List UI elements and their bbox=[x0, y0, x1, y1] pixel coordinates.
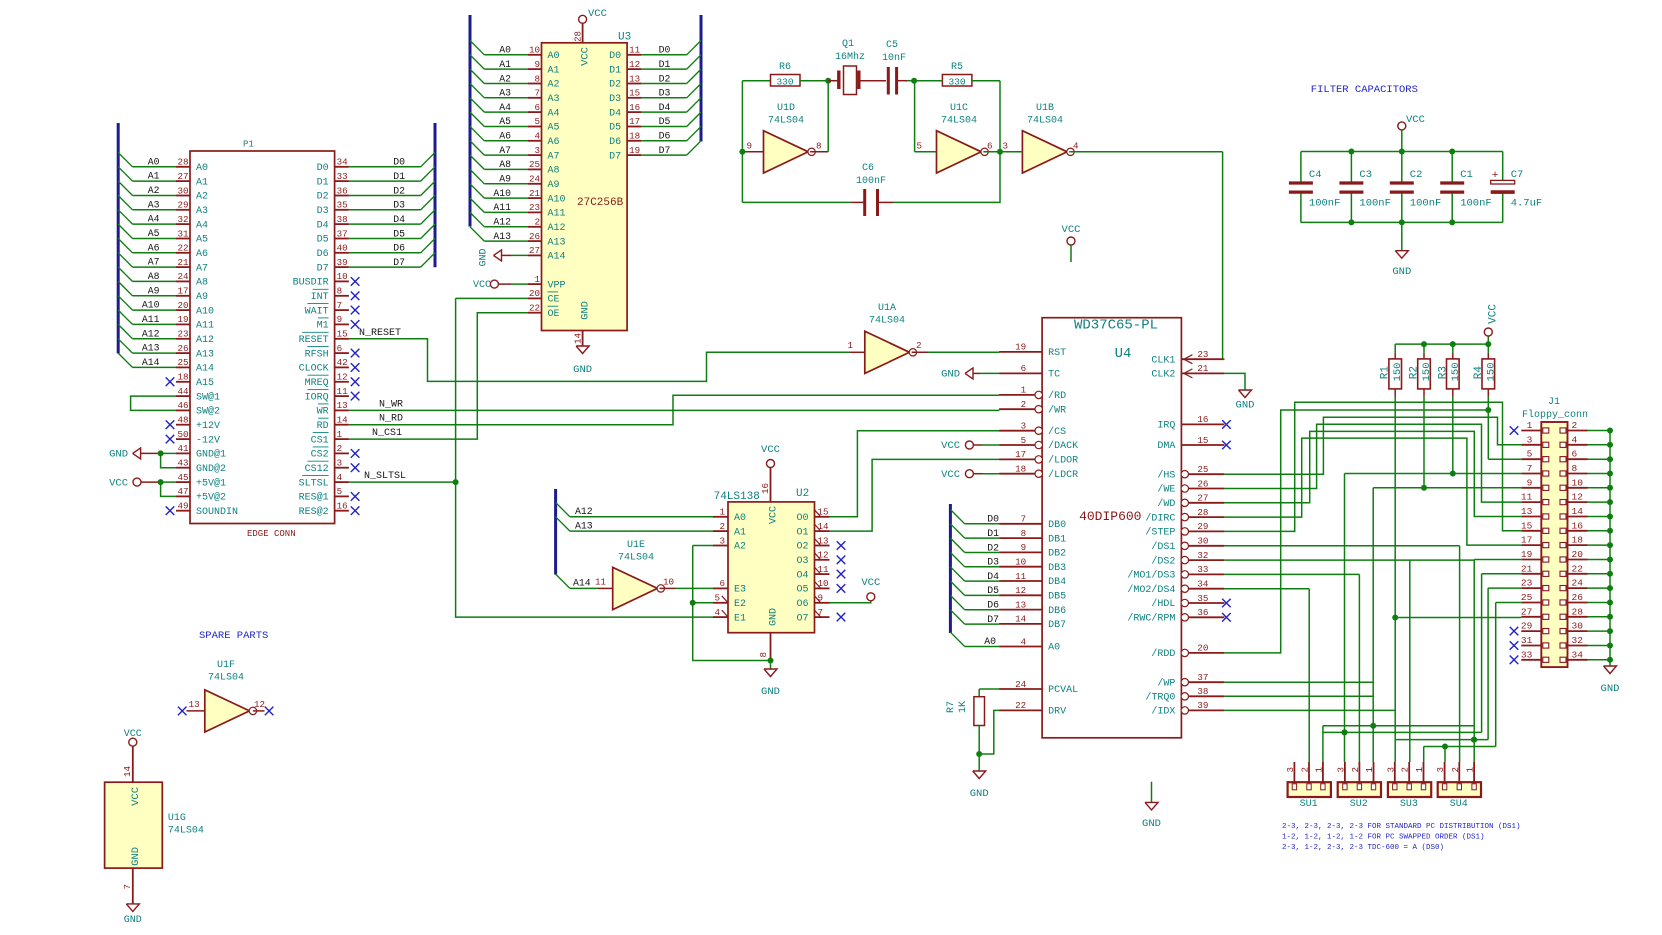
svg-text:2-3, 2-3, 2-3, 2-3 FOR STANDAR: 2-3, 2-3, 2-3, 2-3 FOR STANDARD PC DISTR… bbox=[1282, 823, 1521, 831]
svg-text:/WE: /WE bbox=[1157, 484, 1175, 496]
svg-text:A9: A9 bbox=[499, 174, 511, 185]
svg-text:DB6: DB6 bbox=[1048, 606, 1066, 617]
svg-text:GND: GND bbox=[573, 364, 592, 376]
svg-text:RES@1: RES@1 bbox=[299, 492, 329, 504]
svg-text:VCC: VCC bbox=[580, 47, 592, 66]
svg-text:/MO1/DS3: /MO1/DS3 bbox=[1127, 570, 1175, 582]
svg-text:74LS04: 74LS04 bbox=[168, 826, 204, 837]
svg-text:1: 1 bbox=[1313, 767, 1324, 773]
svg-text:25: 25 bbox=[1197, 464, 1208, 475]
svg-text:D0: D0 bbox=[987, 514, 999, 525]
svg-text:GND: GND bbox=[1601, 683, 1620, 695]
svg-text:44: 44 bbox=[177, 386, 189, 397]
svg-text:18: 18 bbox=[629, 131, 640, 142]
svg-text:150: 150 bbox=[1392, 363, 1404, 382]
svg-text:15: 15 bbox=[337, 329, 348, 340]
svg-text:DB2: DB2 bbox=[1048, 549, 1066, 560]
svg-text:3: 3 bbox=[1435, 767, 1446, 773]
svg-text:MREQ: MREQ bbox=[305, 378, 329, 389]
svg-text:15: 15 bbox=[1197, 435, 1208, 446]
svg-text:7: 7 bbox=[534, 88, 540, 99]
svg-text:21: 21 bbox=[1197, 363, 1209, 374]
svg-text:O5: O5 bbox=[796, 585, 808, 596]
svg-text:DB1: DB1 bbox=[1048, 534, 1066, 545]
svg-text:34: 34 bbox=[1572, 649, 1584, 660]
svg-text:12: 12 bbox=[1015, 585, 1026, 596]
svg-text:D4: D4 bbox=[393, 214, 405, 225]
svg-text:GND: GND bbox=[941, 369, 960, 381]
svg-text:2: 2 bbox=[916, 340, 922, 351]
svg-text:D5: D5 bbox=[987, 585, 999, 596]
svg-text:OE: OE bbox=[548, 309, 560, 320]
svg-text:A2: A2 bbox=[548, 80, 560, 91]
svg-text:17: 17 bbox=[1521, 535, 1532, 546]
svg-text:RES@2: RES@2 bbox=[299, 506, 329, 518]
svg-text:D4: D4 bbox=[609, 108, 621, 119]
svg-text:2: 2 bbox=[1350, 767, 1361, 773]
svg-text:3: 3 bbox=[1285, 767, 1296, 773]
svg-text:VPP: VPP bbox=[548, 280, 566, 291]
svg-text:SU3: SU3 bbox=[1400, 799, 1418, 810]
svg-text:15: 15 bbox=[629, 88, 640, 99]
svg-text:6: 6 bbox=[1021, 363, 1027, 374]
svg-text:23: 23 bbox=[1521, 578, 1533, 589]
svg-text:A2: A2 bbox=[148, 185, 160, 196]
svg-text:13: 13 bbox=[629, 73, 640, 84]
svg-text:A1: A1 bbox=[196, 177, 208, 188]
svg-text:3: 3 bbox=[1021, 421, 1027, 432]
svg-text:37: 37 bbox=[337, 228, 348, 239]
svg-text:A14: A14 bbox=[142, 357, 160, 368]
svg-text:GND: GND bbox=[761, 686, 780, 698]
svg-text:1: 1 bbox=[1364, 767, 1375, 773]
svg-text:A11: A11 bbox=[493, 202, 511, 213]
svg-text:17: 17 bbox=[177, 286, 188, 297]
svg-text:DB0: DB0 bbox=[1048, 520, 1066, 531]
svg-text:40: 40 bbox=[337, 243, 348, 254]
svg-text:74LS04: 74LS04 bbox=[208, 673, 244, 684]
svg-text:22: 22 bbox=[529, 303, 540, 314]
svg-text:D2: D2 bbox=[987, 542, 999, 553]
svg-text:48: 48 bbox=[177, 415, 188, 426]
svg-text:D0: D0 bbox=[393, 157, 405, 168]
svg-text:14: 14 bbox=[122, 766, 133, 778]
svg-text:D2: D2 bbox=[609, 80, 621, 91]
svg-text:D3: D3 bbox=[987, 557, 999, 568]
svg-text:VCC: VCC bbox=[130, 787, 142, 806]
svg-text:1: 1 bbox=[1527, 420, 1533, 431]
svg-text:RD: RD bbox=[317, 421, 329, 432]
svg-text:4: 4 bbox=[1021, 636, 1027, 647]
svg-text:A4: A4 bbox=[499, 102, 511, 113]
svg-text:A0: A0 bbox=[734, 513, 746, 524]
svg-text:A1: A1 bbox=[548, 65, 560, 76]
svg-text:TC: TC bbox=[1048, 370, 1060, 381]
svg-text:2-3, 1-2, 2-3, 2-3 TDC-600 = A: 2-3, 1-2, 2-3, 2-3 TDC-600 = A (DS0) bbox=[1282, 844, 1444, 852]
svg-text:330: 330 bbox=[948, 77, 965, 88]
svg-text:1: 1 bbox=[847, 340, 853, 351]
svg-text:A6: A6 bbox=[196, 249, 208, 260]
svg-text:DB4: DB4 bbox=[1048, 577, 1066, 588]
svg-text:4: 4 bbox=[1572, 434, 1578, 445]
svg-text:A7: A7 bbox=[548, 151, 560, 162]
svg-text:41: 41 bbox=[177, 443, 189, 454]
svg-text:36: 36 bbox=[1197, 607, 1208, 618]
svg-text:R5: R5 bbox=[951, 62, 963, 73]
svg-text:8: 8 bbox=[337, 286, 343, 297]
svg-text:N_RD: N_RD bbox=[379, 414, 403, 425]
svg-text:10: 10 bbox=[337, 271, 348, 282]
svg-text:6: 6 bbox=[1572, 449, 1578, 460]
svg-text:A12: A12 bbox=[142, 328, 160, 339]
svg-text:9: 9 bbox=[1021, 542, 1027, 553]
svg-text:74LS04: 74LS04 bbox=[941, 116, 977, 127]
svg-text:74LS04: 74LS04 bbox=[869, 316, 905, 327]
svg-text:16: 16 bbox=[1572, 520, 1584, 531]
svg-text:7: 7 bbox=[337, 300, 343, 311]
svg-text:D5: D5 bbox=[609, 123, 621, 134]
svg-text:VCC: VCC bbox=[588, 8, 607, 20]
svg-text:40DIP600: 40DIP600 bbox=[1079, 509, 1141, 524]
svg-text:CS12: CS12 bbox=[305, 464, 329, 475]
svg-text:D7: D7 bbox=[659, 145, 671, 156]
svg-text:D6: D6 bbox=[393, 243, 405, 254]
svg-text:33: 33 bbox=[1197, 564, 1208, 575]
svg-text:VCC: VCC bbox=[1406, 114, 1425, 126]
svg-text:/IDX: /IDX bbox=[1151, 706, 1175, 718]
svg-text:A13: A13 bbox=[575, 520, 593, 531]
svg-text:28: 28 bbox=[573, 31, 584, 42]
svg-text:9: 9 bbox=[337, 314, 343, 325]
svg-text:32: 32 bbox=[1197, 550, 1208, 561]
svg-text:CE: CE bbox=[548, 295, 560, 306]
svg-text:20: 20 bbox=[1572, 549, 1584, 560]
svg-text:24: 24 bbox=[177, 271, 189, 282]
svg-text:1: 1 bbox=[534, 274, 540, 285]
svg-text:CS1: CS1 bbox=[311, 435, 329, 446]
svg-text:CLK2: CLK2 bbox=[1151, 370, 1175, 381]
svg-text:29: 29 bbox=[177, 200, 188, 211]
svg-text:E1: E1 bbox=[734, 613, 746, 624]
svg-text:A3: A3 bbox=[499, 88, 511, 99]
svg-text:SU2: SU2 bbox=[1350, 799, 1368, 810]
svg-text:A2: A2 bbox=[499, 73, 511, 84]
svg-text:E3: E3 bbox=[734, 585, 746, 596]
svg-text:21: 21 bbox=[1521, 563, 1533, 574]
svg-text:39: 39 bbox=[1197, 700, 1208, 711]
svg-text:A8: A8 bbox=[148, 271, 160, 282]
svg-text:2: 2 bbox=[719, 521, 725, 532]
svg-text:D2: D2 bbox=[393, 185, 405, 196]
svg-text:8: 8 bbox=[1021, 528, 1027, 539]
svg-text:D7: D7 bbox=[317, 263, 329, 274]
svg-text:A13: A13 bbox=[142, 343, 160, 354]
svg-text:43: 43 bbox=[177, 458, 188, 469]
svg-text:/DIRC: /DIRC bbox=[1145, 512, 1175, 524]
svg-text:D5: D5 bbox=[659, 116, 671, 127]
svg-text:21: 21 bbox=[177, 257, 189, 268]
svg-text:26: 26 bbox=[529, 231, 540, 242]
svg-text:-12V: -12V bbox=[196, 435, 220, 446]
svg-text:J1: J1 bbox=[1548, 397, 1560, 408]
svg-text:3: 3 bbox=[1385, 767, 1396, 773]
svg-text:D1: D1 bbox=[659, 59, 671, 70]
svg-text:A0: A0 bbox=[1048, 643, 1060, 654]
svg-text:A5: A5 bbox=[548, 123, 560, 134]
svg-text:A12: A12 bbox=[548, 223, 566, 234]
svg-text:A7: A7 bbox=[148, 257, 160, 268]
svg-text:D3: D3 bbox=[609, 94, 621, 105]
svg-text:R6: R6 bbox=[779, 62, 791, 73]
svg-text:18: 18 bbox=[177, 372, 188, 383]
svg-text:2: 2 bbox=[1300, 767, 1311, 773]
svg-text:WAIT: WAIT bbox=[305, 306, 329, 317]
svg-text:13: 13 bbox=[337, 400, 348, 411]
svg-text:1: 1 bbox=[337, 429, 343, 440]
svg-text:3: 3 bbox=[534, 145, 540, 156]
svg-text:10: 10 bbox=[529, 45, 540, 56]
svg-text:EDGE CONN: EDGE CONN bbox=[247, 529, 296, 539]
svg-text:2: 2 bbox=[1021, 399, 1027, 410]
svg-text:A3: A3 bbox=[548, 94, 560, 105]
svg-text:4: 4 bbox=[1073, 141, 1079, 152]
svg-text:GND: GND bbox=[1236, 400, 1255, 412]
svg-text:SU1: SU1 bbox=[1300, 799, 1318, 810]
svg-text:11: 11 bbox=[595, 576, 607, 587]
svg-text:INT: INT bbox=[311, 292, 329, 303]
svg-text:18: 18 bbox=[1015, 464, 1026, 475]
svg-text:VCC: VCC bbox=[761, 444, 780, 456]
svg-text:38: 38 bbox=[337, 214, 348, 225]
svg-text:1: 1 bbox=[719, 507, 725, 518]
svg-text:A10: A10 bbox=[142, 300, 160, 311]
svg-text:O4: O4 bbox=[796, 570, 808, 581]
svg-text:/MO2/DS4: /MO2/DS4 bbox=[1127, 584, 1175, 596]
svg-text:BUSDIR: BUSDIR bbox=[293, 278, 329, 289]
svg-text:11: 11 bbox=[337, 386, 349, 397]
svg-text:31: 31 bbox=[177, 228, 189, 239]
svg-text:A13: A13 bbox=[493, 231, 511, 242]
svg-text:38: 38 bbox=[1197, 686, 1208, 697]
svg-text:IORQ: IORQ bbox=[305, 392, 329, 403]
svg-text:5: 5 bbox=[714, 593, 720, 604]
svg-text:5: 5 bbox=[337, 486, 343, 497]
svg-text:A1: A1 bbox=[499, 59, 511, 70]
svg-text:/WR: /WR bbox=[1048, 404, 1066, 416]
svg-text:/DACK: /DACK bbox=[1048, 440, 1078, 452]
svg-text:29: 29 bbox=[1197, 521, 1208, 532]
svg-text:N_SLTSL: N_SLTSL bbox=[364, 471, 406, 482]
svg-text:GND: GND bbox=[769, 608, 780, 626]
svg-text:GND: GND bbox=[970, 788, 989, 800]
svg-text:7: 7 bbox=[122, 884, 133, 890]
svg-text:8: 8 bbox=[758, 652, 769, 658]
svg-text:A0: A0 bbox=[148, 156, 160, 167]
svg-text:D2: D2 bbox=[317, 192, 329, 203]
svg-text:+5V@1: +5V@1 bbox=[196, 477, 226, 489]
svg-text:N_CS1: N_CS1 bbox=[372, 428, 402, 439]
svg-text:18: 18 bbox=[1572, 535, 1584, 546]
svg-text:6: 6 bbox=[337, 343, 343, 354]
svg-text:33: 33 bbox=[1521, 649, 1533, 660]
svg-text:R4: R4 bbox=[1473, 366, 1485, 380]
svg-text:26: 26 bbox=[177, 343, 188, 354]
svg-text:3: 3 bbox=[1002, 141, 1008, 152]
svg-text:/HS: /HS bbox=[1157, 469, 1175, 481]
svg-text:GND: GND bbox=[580, 301, 592, 320]
svg-text:20: 20 bbox=[1197, 643, 1208, 654]
svg-text:34: 34 bbox=[1197, 579, 1209, 590]
svg-text:A4: A4 bbox=[548, 108, 560, 119]
svg-text:22: 22 bbox=[1572, 563, 1584, 574]
svg-text:SOUNDIN: SOUNDIN bbox=[196, 507, 238, 518]
svg-text:GND: GND bbox=[479, 249, 490, 267]
svg-text:50: 50 bbox=[177, 429, 188, 440]
svg-text:D4: D4 bbox=[987, 571, 999, 582]
svg-text:U1D: U1D bbox=[777, 103, 795, 114]
svg-text:24: 24 bbox=[1015, 679, 1027, 690]
svg-text:A11: A11 bbox=[196, 321, 214, 332]
svg-text:O0: O0 bbox=[796, 513, 808, 524]
svg-text:1: 1 bbox=[1414, 767, 1425, 773]
svg-text:A14: A14 bbox=[196, 364, 214, 375]
svg-text:U3: U3 bbox=[618, 32, 631, 44]
svg-text:20: 20 bbox=[177, 300, 188, 311]
svg-text:+: + bbox=[1492, 170, 1499, 182]
svg-text:A0: A0 bbox=[548, 51, 560, 62]
svg-text:2: 2 bbox=[534, 217, 540, 228]
svg-text:VCC: VCC bbox=[941, 440, 960, 452]
svg-text:A9: A9 bbox=[548, 180, 560, 191]
svg-text:A8: A8 bbox=[548, 166, 560, 177]
svg-text:12: 12 bbox=[629, 59, 640, 70]
svg-text:A11: A11 bbox=[142, 314, 160, 325]
svg-text:CLK1: CLK1 bbox=[1151, 355, 1175, 366]
svg-text:/RWC/RPM: /RWC/RPM bbox=[1127, 613, 1175, 625]
svg-text:/WD: /WD bbox=[1157, 498, 1175, 510]
svg-text:D2: D2 bbox=[659, 73, 671, 84]
svg-text:27: 27 bbox=[177, 171, 188, 182]
svg-text:R3: R3 bbox=[1437, 366, 1449, 379]
svg-text:22: 22 bbox=[177, 243, 188, 254]
svg-text:7: 7 bbox=[1527, 463, 1533, 474]
svg-text:VCC: VCC bbox=[1488, 304, 1500, 324]
svg-text:23: 23 bbox=[529, 202, 540, 213]
svg-text:P1: P1 bbox=[243, 140, 254, 150]
svg-text:FILTER CAPACITORS: FILTER CAPACITORS bbox=[1311, 84, 1418, 96]
svg-text:10nF: 10nF bbox=[882, 53, 906, 64]
svg-text:VCC: VCC bbox=[861, 577, 880, 589]
svg-text:9: 9 bbox=[1527, 477, 1533, 488]
svg-text:DB3: DB3 bbox=[1048, 563, 1066, 574]
svg-text:150: 150 bbox=[1421, 363, 1433, 382]
svg-text:DB5: DB5 bbox=[1048, 592, 1066, 603]
svg-text:37: 37 bbox=[1197, 672, 1208, 683]
svg-text:D1: D1 bbox=[609, 65, 621, 76]
svg-text:28: 28 bbox=[1572, 606, 1584, 617]
svg-text:CLOCK: CLOCK bbox=[299, 364, 329, 375]
svg-text:35: 35 bbox=[337, 200, 348, 211]
svg-text:16Mhz: 16Mhz bbox=[835, 51, 865, 63]
svg-text:D3: D3 bbox=[393, 200, 405, 211]
svg-text:+12V: +12V bbox=[196, 421, 220, 432]
svg-text:2: 2 bbox=[1572, 420, 1578, 431]
svg-text:25: 25 bbox=[529, 159, 540, 170]
svg-text:DRV: DRV bbox=[1048, 707, 1066, 718]
svg-text:A6: A6 bbox=[499, 131, 511, 142]
svg-text:/TRQ0: /TRQ0 bbox=[1145, 692, 1175, 704]
svg-text:5: 5 bbox=[534, 116, 540, 127]
svg-text:VCC: VCC bbox=[769, 506, 780, 524]
svg-text:150: 150 bbox=[1485, 363, 1497, 382]
svg-text:14: 14 bbox=[1572, 506, 1584, 517]
svg-text:E2: E2 bbox=[734, 599, 746, 610]
svg-text:CS2: CS2 bbox=[311, 450, 329, 461]
svg-text:16: 16 bbox=[760, 483, 771, 494]
svg-text:24: 24 bbox=[529, 174, 541, 185]
svg-text:1K: 1K bbox=[958, 701, 969, 713]
svg-text:A12: A12 bbox=[196, 335, 214, 346]
svg-text:5: 5 bbox=[1021, 435, 1027, 446]
svg-text:10: 10 bbox=[1015, 557, 1026, 568]
svg-text:A2: A2 bbox=[734, 542, 746, 553]
svg-text:D3: D3 bbox=[317, 206, 329, 217]
svg-text:4: 4 bbox=[714, 607, 720, 618]
svg-text:32: 32 bbox=[1572, 635, 1584, 646]
svg-text:A11: A11 bbox=[548, 209, 566, 220]
svg-text:14: 14 bbox=[573, 333, 584, 345]
svg-text:D4: D4 bbox=[659, 102, 671, 113]
svg-text:WR: WR bbox=[317, 407, 329, 418]
svg-text:9: 9 bbox=[746, 141, 752, 152]
svg-text:1: 1 bbox=[1465, 767, 1476, 773]
svg-text:23: 23 bbox=[1197, 349, 1208, 360]
svg-text:A10: A10 bbox=[493, 188, 511, 199]
svg-text:74LS04: 74LS04 bbox=[1027, 116, 1063, 127]
svg-text:150: 150 bbox=[1450, 363, 1462, 382]
svg-text:D1: D1 bbox=[987, 528, 999, 539]
svg-text:27: 27 bbox=[1197, 493, 1208, 504]
svg-text:49: 49 bbox=[177, 501, 188, 512]
svg-text:C4: C4 bbox=[1309, 169, 1322, 181]
svg-text:19: 19 bbox=[1521, 549, 1533, 560]
svg-text:/LDCR: /LDCR bbox=[1048, 469, 1078, 481]
svg-text:A10: A10 bbox=[548, 194, 566, 205]
svg-text:D7: D7 bbox=[609, 151, 621, 162]
svg-text:A13: A13 bbox=[548, 237, 566, 248]
svg-text:+5V@2: +5V@2 bbox=[196, 492, 226, 504]
svg-text:22: 22 bbox=[1015, 700, 1026, 711]
svg-text:GND@1: GND@1 bbox=[196, 449, 226, 461]
svg-text:A6: A6 bbox=[548, 137, 560, 148]
svg-text:A8: A8 bbox=[196, 278, 208, 289]
svg-text:GND@2: GND@2 bbox=[196, 463, 226, 475]
svg-text:15: 15 bbox=[1521, 520, 1533, 531]
svg-text:74LS138: 74LS138 bbox=[714, 491, 760, 503]
svg-text:D6: D6 bbox=[317, 249, 329, 260]
svg-text:SLTSL: SLTSL bbox=[299, 478, 329, 489]
svg-text:D6: D6 bbox=[987, 600, 999, 611]
svg-text:Q1: Q1 bbox=[842, 39, 854, 50]
svg-text:C2: C2 bbox=[1410, 169, 1423, 181]
svg-text:A0: A0 bbox=[984, 636, 996, 647]
svg-text:A6: A6 bbox=[148, 242, 160, 253]
svg-text:26: 26 bbox=[1197, 478, 1208, 489]
svg-text:4: 4 bbox=[534, 131, 540, 142]
svg-text:VCC: VCC bbox=[124, 729, 142, 740]
svg-text:47: 47 bbox=[177, 486, 188, 497]
svg-text:U1A: U1A bbox=[878, 303, 896, 314]
